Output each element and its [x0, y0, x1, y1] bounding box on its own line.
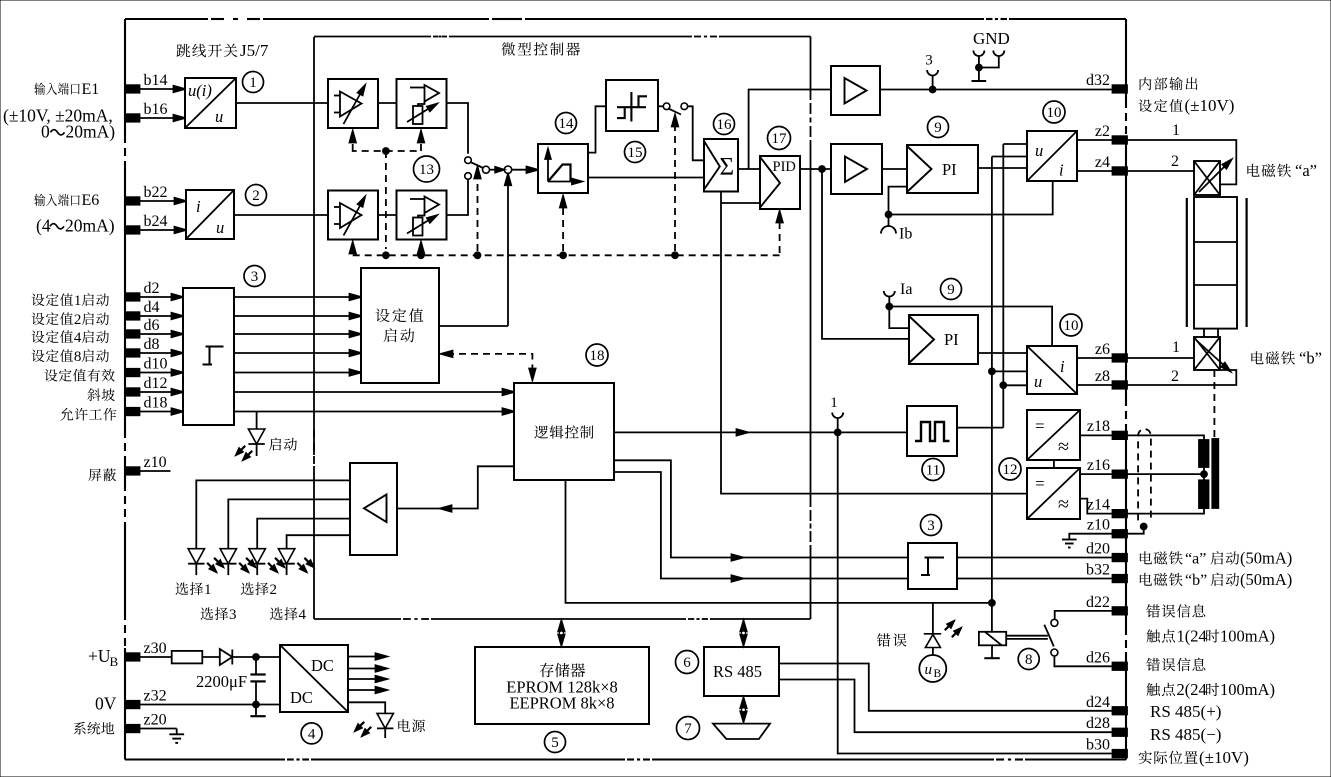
- DCDC output arrow 1: [348, 653, 387, 659]
- svg-text:J5/7: J5/7: [240, 41, 269, 60]
- dashed ctrl to input switch: [474, 167, 480, 251]
- svg-text:d12: d12: [144, 375, 168, 392]
- svg-text:20mA): 20mA): [66, 122, 116, 142]
- pin label b32: [1086, 562, 1110, 579]
- terminal z16: [1113, 470, 1128, 478]
- wire z2 to solenoid a: [1126, 140, 1236, 184]
- label: 选择2: [241, 582, 277, 598]
- block B2: variable gain ch2: [397, 191, 447, 240]
- wire b22 to block 2: [139, 198, 186, 204]
- block U1: input converter u(i)/u: [185, 78, 236, 128]
- wire block3 out y316 to setpoint box: [234, 313, 361, 319]
- pickup 1 above junction: [830, 395, 843, 432]
- wire feedback to amp1: [749, 90, 831, 170]
- wire amp1 out to d32: [880, 87, 1112, 93]
- svg-text:4: 4: [74, 330, 82, 346]
- pin label z6: [1095, 341, 1110, 358]
- terminal z2: [1113, 136, 1128, 144]
- pin label z10 right: [1087, 517, 1110, 534]
- block U5: memory (存储器 EPROM/EEPROM): [475, 647, 649, 724]
- svg-text:14: 14: [559, 116, 575, 132]
- wire ui-b z6: [1077, 357, 1112, 359]
- wire fuse to diode: [202, 656, 220, 658]
- terminal z14: [1113, 510, 1128, 518]
- svg-text:PI: PI: [942, 160, 957, 179]
- microcontroller dashed box (left edge): [313, 37, 315, 619]
- svg-text:100mA): 100mA): [1220, 627, 1275, 646]
- svg-text:PI: PI: [944, 330, 959, 349]
- wire z10 to cable shield: [1126, 524, 1147, 534]
- block U17: PID controller: [760, 156, 800, 209]
- svg-text:d8: d8: [144, 336, 160, 353]
- terminal z32: [125, 701, 140, 709]
- microcontroller box bottom edge: [314, 618, 811, 620]
- block U12a: oscillator =/~: [1027, 410, 1080, 460]
- pin label d32: [1086, 72, 1110, 89]
- svg-text:“a”: “a”: [1295, 161, 1317, 180]
- label: actual position (实际位置(±10V)): [1139, 748, 1249, 767]
- svg-text:E1: E1: [82, 81, 100, 98]
- pin label d4: [144, 299, 160, 316]
- wire block3 out y334 to setpoint box: [234, 331, 361, 337]
- label: jumper switch J5/7 (跳线开关 J5/7): [176, 41, 268, 60]
- terminal d10: [125, 369, 140, 377]
- select LED 1: [188, 549, 223, 575]
- svg-text:12: 12: [1003, 462, 1018, 478]
- block U18: logic control (逻辑控制): [514, 383, 614, 480]
- svg-text:“a”: “a”: [1185, 551, 1206, 568]
- label: 斜坡: [87, 388, 114, 401]
- svg-text:z18: z18: [1087, 418, 1110, 435]
- wire z14 to LVDT: [1126, 508, 1204, 513]
- DCDC output arrow 2: [348, 665, 387, 671]
- terminal d8: [125, 349, 140, 357]
- label: 选择4: [270, 607, 306, 623]
- svg-text:2: 2: [1171, 153, 1179, 170]
- block: setpoint activation (设定值启动): [361, 268, 439, 383]
- LVDT core: [1212, 439, 1218, 508]
- svg-text:1: 1: [830, 395, 838, 411]
- enable stub to ui-a 2nd: [992, 156, 1027, 158]
- wire PID out to amp2 and PI-b: [800, 166, 909, 339]
- svg-text:(50mA): (50mA): [1240, 570, 1292, 589]
- relay coil: [979, 603, 1006, 645]
- valve side bar left: [1186, 198, 1188, 327]
- block U3b: solenoid enable threshold: [908, 543, 957, 589]
- block: amplifier 2: [831, 144, 882, 194]
- terminal d20: [1113, 554, 1128, 562]
- wire pulse out to dither rail: [957, 427, 1003, 429]
- block U9a: PI controller a: [907, 145, 978, 193]
- wire DCDC to power LED: [348, 702, 385, 713]
- circled 9a: [928, 117, 949, 138]
- label: 2200uF: [196, 672, 247, 691]
- block A1: variable attenuator ch1: [328, 79, 378, 128]
- ground symbol system: [169, 729, 184, 743]
- svg-text:7: 7: [684, 721, 692, 737]
- terminal d28: [1113, 729, 1128, 737]
- block U11: dither pulse generator: [907, 406, 957, 456]
- dashed ctrl to ramp: [560, 196, 566, 251]
- svg-text:d20: d20: [1086, 541, 1110, 558]
- solenoid b coil: [1194, 337, 1231, 372]
- DCDC output arrow 3: [348, 676, 387, 682]
- circled 17: [768, 127, 791, 150]
- svg-text:d4: d4: [144, 299, 160, 316]
- svg-text:u: u: [215, 107, 223, 126]
- select LED 4: [278, 549, 313, 575]
- svg-text:z10: z10: [1087, 517, 1110, 534]
- wire LED driver to select LED 3: [257, 519, 350, 549]
- valve side bar right: [1245, 198, 1247, 327]
- solenoid a coil: [1194, 160, 1232, 196]
- terminal d26: [1113, 663, 1128, 671]
- circled 3: [244, 266, 265, 287]
- dither/enable stub to ui-a top: [1003, 143, 1027, 145]
- pin label d8: [144, 336, 160, 353]
- error LED uB: [924, 603, 961, 655]
- svg-text:2: 2: [1171, 368, 1179, 385]
- wire d10 to block 3: [139, 369, 183, 375]
- wire z30 to fuse: [139, 656, 172, 658]
- svg-text:3: 3: [925, 53, 933, 69]
- svg-text:d6: d6: [144, 317, 160, 334]
- pin label d28: [1086, 715, 1110, 732]
- circled 13: [414, 156, 440, 182]
- svg-text:z8: z8: [1095, 368, 1110, 385]
- svg-text:d18: d18: [144, 395, 168, 412]
- terminal z10 left: [125, 467, 140, 475]
- svg-text:u(i): u(i): [188, 81, 212, 100]
- wire d2 to block 3: [139, 294, 183, 300]
- wire ui-b z8: [1077, 384, 1112, 386]
- terminal d2: [125, 293, 140, 301]
- solenoid b neck: [1204, 329, 1218, 337]
- circled 10b: [1060, 314, 1082, 336]
- pin label z20: [144, 712, 167, 729]
- svg-text:B: B: [110, 654, 119, 669]
- circled 11: [922, 459, 944, 481]
- pin label d10: [144, 356, 168, 373]
- circled 16: [714, 114, 735, 135]
- wire d18 to block 3: [139, 408, 183, 414]
- terminal b32: [1113, 575, 1128, 583]
- block U12b: oscillator =/~ 2: [1027, 468, 1080, 519]
- uB source circle: [919, 655, 946, 682]
- wire logic out to b32 row: [614, 472, 908, 582]
- svg-text:b22: b22: [144, 184, 168, 201]
- svg-text:2: 2: [270, 582, 278, 598]
- label: input port E6 (输入端口E6): [34, 192, 99, 209]
- circled 18: [586, 344, 608, 366]
- svg-text:1: 1: [74, 293, 82, 309]
- pin label b16: [144, 101, 168, 118]
- svg-text:1: 1: [249, 75, 257, 91]
- wire PI-a out to ui-a: [978, 167, 1027, 169]
- error contact switch: [1044, 619, 1058, 656]
- svg-text:b30: b30: [1086, 737, 1110, 754]
- label: RS 485(-): [1150, 725, 1221, 744]
- svg-text:+U: +U: [88, 646, 111, 666]
- svg-text:=: =: [1035, 417, 1045, 436]
- circled 3b: [921, 515, 942, 536]
- svg-text:3: 3: [229, 607, 237, 623]
- svg-text:b32: b32: [1086, 562, 1110, 579]
- block U4: DC/DC converter: [280, 645, 348, 712]
- circled 12: [999, 458, 1021, 480]
- pin label d22: [1086, 594, 1110, 611]
- block U15: step function: [606, 80, 658, 131]
- svg-text:1(24: 1(24: [1177, 627, 1207, 646]
- wire block3 out y353 to setpoint box: [234, 350, 361, 356]
- block: amplifier 1: [831, 66, 880, 115]
- wire between U12a/U12b: [1053, 460, 1055, 468]
- block U9b: PI controller b: [909, 315, 978, 364]
- microcontroller box right edge: [810, 37, 812, 620]
- fuse: [172, 651, 203, 664]
- circled 10a: [1043, 101, 1065, 123]
- label: 0V: [95, 694, 117, 714]
- terminal d6: [125, 330, 140, 338]
- svg-text:u: u: [925, 662, 933, 678]
- svg-text:0V: 0V: [95, 694, 117, 714]
- label: solenoid b start: [1140, 570, 1292, 589]
- terminal d4: [125, 312, 140, 320]
- svg-text:z32: z32: [144, 688, 167, 705]
- svg-text:100mA): 100mA): [1220, 680, 1275, 699]
- svg-text:RS 485(−): RS 485(−): [1150, 725, 1221, 744]
- pin label b14: [144, 72, 168, 89]
- block U14: ramp generator: [538, 144, 588, 193]
- wire feedback branch to PID lower input: [721, 202, 760, 204]
- label wire 2 (a): [1171, 153, 1179, 170]
- terminal z10 right: [1113, 530, 1128, 538]
- label: 设定值1启动: [32, 293, 109, 309]
- wire block2 out to A2: [234, 214, 328, 216]
- svg-text:RS 485(+): RS 485(+): [1150, 702, 1221, 721]
- position feedback to sigma: [721, 191, 1027, 494]
- wire actual position to b30: [838, 432, 1112, 753]
- label: contact 1: [1147, 627, 1275, 646]
- label: contact 2: [1147, 680, 1275, 699]
- svg-text:RS 485: RS 485: [713, 662, 762, 681]
- circled 7: [677, 717, 700, 740]
- svg-text:1: 1: [1172, 339, 1180, 356]
- dashed ctrl logic to setpoint box: [441, 351, 536, 380]
- svg-text:d2: d2: [144, 280, 160, 297]
- card frame left border: [124, 19, 126, 760]
- label wire 1 (b): [1172, 339, 1180, 356]
- svg-text:E6: E6: [82, 192, 100, 209]
- terminal b14: [125, 85, 140, 93]
- pin label d12: [144, 375, 168, 392]
- label: error message 2 (错误信息): [1146, 658, 1205, 671]
- svg-text:d32: d32: [1086, 72, 1110, 89]
- block: LED driver amplifier: [350, 463, 397, 555]
- label: 0~20mA): [41, 122, 115, 142]
- wire logic down to error line: [566, 480, 995, 606]
- wire LED driver to select LED 4: [287, 535, 350, 549]
- label: +UB supply: [88, 646, 119, 669]
- valve body: [1194, 197, 1237, 329]
- label: 选择1: [176, 582, 212, 598]
- LED start (启动) with stem: [236, 412, 265, 461]
- svg-text:3: 3: [927, 518, 935, 534]
- dashed ctrl to bypass switch: [672, 115, 678, 251]
- select LED 3: [249, 549, 284, 575]
- label: shield (屏蔽): [88, 468, 116, 481]
- circled 2: [246, 185, 267, 206]
- svg-text:20mA): 20mA): [65, 216, 115, 236]
- wire d20 out: [957, 557, 1112, 559]
- wire block3 out d18 row to logic: [234, 408, 514, 414]
- pin label z10 left: [144, 454, 167, 471]
- svg-text:DC: DC: [290, 688, 313, 707]
- wire z10 stub: [139, 470, 171, 472]
- svg-text:B: B: [934, 668, 942, 680]
- circled 15: [625, 142, 646, 163]
- svg-text:b14: b14: [144, 72, 168, 89]
- wire d12 to block 3: [139, 389, 183, 395]
- label: error (错误): [877, 633, 907, 646]
- svg-text:d28: d28: [1086, 715, 1110, 732]
- svg-text:d24: d24: [1086, 694, 1110, 711]
- block U10b: driver u/i b: [1027, 346, 1077, 394]
- current feedback Ia: [884, 281, 1052, 346]
- svg-text:17: 17: [772, 131, 788, 147]
- terminal d22: [1113, 607, 1128, 615]
- wire b14 to block 1: [139, 86, 185, 92]
- wire sigma out to PID: [738, 168, 760, 170]
- terminal z4: [1113, 167, 1128, 175]
- svg-text:2200μF: 2200μF: [196, 672, 247, 691]
- svg-text:(50mA): (50mA): [1240, 549, 1292, 568]
- wire b16 to block 1: [139, 115, 185, 121]
- pin label b22: [144, 184, 168, 201]
- terminal d12: [125, 388, 140, 396]
- cable shield: [1138, 429, 1151, 520]
- dashed control bus: [353, 252, 780, 258]
- svg-text:10: 10: [1047, 105, 1062, 121]
- wire ramp out to sigma: [588, 177, 704, 179]
- block B1: variable gain ch1: [397, 79, 447, 128]
- svg-text:z4: z4: [1095, 154, 1110, 171]
- wire logic to LED driver: [397, 466, 514, 511]
- card frame bottom border: [125, 758, 1126, 760]
- wire z32 0V line: [139, 704, 280, 706]
- wire b24 to block 2: [139, 227, 186, 233]
- label: start (启动): [269, 438, 297, 451]
- svg-text:d26: d26: [1086, 649, 1110, 666]
- label: power (电源): [398, 719, 425, 732]
- LVDT coil upper: [1199, 440, 1209, 467]
- svg-text:z16: z16: [1087, 457, 1110, 474]
- label: input port E1 (输入端口E1): [34, 81, 99, 98]
- label: solenoid a start: [1140, 549, 1292, 568]
- pickup 3: [925, 53, 938, 90]
- connector symbol: [713, 724, 770, 739]
- pin label z30: [144, 640, 167, 657]
- label: solenoid a (电磁铁 “a”): [1247, 161, 1317, 180]
- terminal d24: [1113, 707, 1128, 715]
- pin label b24: [144, 213, 168, 230]
- relay mechanical link: [1006, 636, 1048, 639]
- terminal d32: [1113, 85, 1128, 93]
- label: (4~20mA): [36, 216, 115, 236]
- dashed ctrl bus to A2/B2: [350, 242, 425, 254]
- svg-text:i: i: [1060, 357, 1065, 376]
- RS485 bus double arrow: [740, 621, 746, 646]
- svg-text:10: 10: [1064, 318, 1079, 334]
- svg-text:8: 8: [1025, 652, 1033, 668]
- svg-text:u: u: [1034, 372, 1042, 391]
- svg-text:z14: z14: [1087, 497, 1110, 514]
- wire z8 to solenoid b: [1126, 370, 1236, 385]
- label: setpoint ±10V (设定值(±10V)): [1139, 96, 1235, 115]
- pin label z2: [1095, 123, 1110, 140]
- label: 设定值8启动: [32, 349, 109, 365]
- wire d26: [1054, 656, 1112, 666]
- terminal z18: [1113, 432, 1128, 440]
- terminal d18: [125, 408, 140, 416]
- dashed ctrl bus to A1/B1: [350, 131, 425, 249]
- terminal b22: [125, 197, 140, 205]
- svg-text:“b”: “b”: [1299, 349, 1322, 368]
- svg-text:1: 1: [204, 582, 212, 598]
- svg-text:z6: z6: [1095, 341, 1110, 358]
- label: system ground (系统地): [74, 722, 114, 735]
- circled 8: [1018, 649, 1039, 670]
- svg-text:2: 2: [74, 312, 82, 328]
- terminal z8: [1113, 381, 1128, 389]
- RS485 to connector double arrow: [740, 698, 746, 723]
- svg-text:2: 2: [252, 188, 260, 204]
- svg-text:8: 8: [74, 349, 82, 365]
- svg-text:13: 13: [419, 162, 434, 178]
- wire z4 to solenoid a: [1126, 170, 1194, 172]
- wire block3 out y297 to setpoint box: [234, 294, 361, 300]
- pin label z18: [1087, 418, 1110, 435]
- svg-text:z20: z20: [144, 712, 167, 729]
- GND symbol: [972, 29, 1010, 81]
- svg-text:d10: d10: [144, 356, 168, 373]
- pin label z8: [1095, 368, 1110, 385]
- svg-text:0: 0: [41, 122, 50, 142]
- svg-text:EEPROM 8k×8: EEPROM 8k×8: [509, 694, 614, 713]
- label: RS 485(+): [1150, 702, 1221, 721]
- wire z16 to LVDT: [1126, 467, 1207, 480]
- svg-text:≈: ≈: [1058, 436, 1069, 458]
- microcontroller box top edge: [314, 36, 811, 38]
- wire ramp to step block 15: [588, 106, 606, 152]
- svg-text:6: 6: [683, 655, 691, 671]
- wire amp2 to PI-a: [882, 168, 907, 170]
- label: 设定值有效: [45, 369, 115, 382]
- current feedback Ib: [881, 181, 1053, 243]
- circled 6: [676, 651, 699, 674]
- diode D1: [220, 649, 233, 665]
- svg-text:(±10V): (±10V): [1185, 96, 1235, 115]
- wire RS485 to d28: [779, 680, 1112, 733]
- pin label z16: [1087, 457, 1110, 474]
- svg-text:Ia: Ia: [900, 281, 912, 298]
- circled 14: [556, 113, 577, 134]
- label wire 2 (b): [1171, 368, 1179, 385]
- pin label z32: [144, 688, 167, 705]
- terminal z6: [1113, 354, 1128, 362]
- wire ui-a z2: [1077, 139, 1112, 141]
- wire A2-B2: [378, 214, 397, 216]
